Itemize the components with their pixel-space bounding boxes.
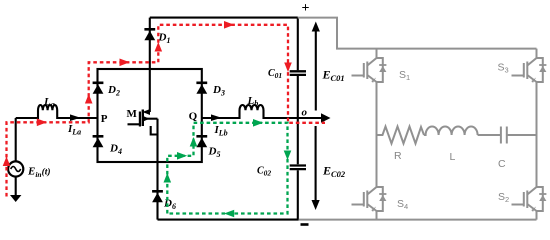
svg-text:P: P <box>101 113 108 125</box>
capacitor C01 <box>290 71 306 75</box>
gate bar <box>139 112 141 127</box>
wire: output line Q to o with inductor Lb <box>202 105 322 118</box>
gray bottom link wire <box>299 219 537 221</box>
diode bridge box <box>98 69 202 162</box>
wire: source top lead <box>15 118 17 162</box>
red arrow up beside D1 <box>155 42 163 52</box>
svg-text:R: R <box>394 150 402 162</box>
green arrow down at C02 <box>284 151 292 161</box>
red arrow down at C01 <box>284 63 292 73</box>
IGBT S4 <box>352 187 387 212</box>
diode D1 <box>144 29 155 40</box>
diode D2 <box>93 83 104 94</box>
diode D4 <box>93 136 104 147</box>
green current path (loop 2) <box>167 123 287 214</box>
MOSFET M <box>128 109 158 135</box>
wire: bottom rail <box>158 219 299 221</box>
gray left leg wire <box>376 49 378 220</box>
current arrow I_La <box>70 114 81 121</box>
wire: input line from source to node P with inductor La <box>16 105 98 118</box>
voltage arrow E_C01 <box>312 22 320 111</box>
green arrow right on Q-o run <box>253 119 263 127</box>
IGBT S1 <box>352 58 387 83</box>
AC source E_in(t) <box>8 161 23 176</box>
svg-text:Q: Q <box>189 111 198 123</box>
load capacitor C <box>478 127 537 144</box>
diode D6 <box>152 191 163 202</box>
red arrow up beside D2 <box>85 94 93 104</box>
ground (down arrow) <box>10 195 21 202</box>
red arrow up at source <box>3 157 11 167</box>
wire: D1 branch from top rail down to MOSFET drain <box>149 18 151 112</box>
svg-text:L: L <box>450 151 456 163</box>
red arrow right on top run <box>224 21 234 29</box>
minus terminal <box>301 223 309 226</box>
gate lead stub <box>128 123 140 125</box>
channel bar <box>142 110 144 127</box>
green arrow right below box <box>177 152 187 160</box>
green arrow left on bottom run <box>224 210 234 218</box>
gray right leg wire <box>536 49 538 220</box>
red arrow right on La line <box>37 119 47 127</box>
diode D5 <box>196 136 207 147</box>
current arrow I_Lb <box>211 114 222 121</box>
output terminal arrowhead <box>321 113 331 123</box>
svg-text:o: o <box>302 107 308 119</box>
svg-text:+: + <box>302 1 310 16</box>
svg-text:M: M <box>127 108 138 120</box>
wire: MOSFET source down through D6 to bottom rail <box>156 135 158 220</box>
red arrow right above box <box>120 59 130 67</box>
wire: source bottom lead <box>15 177 17 196</box>
body lead with right arrow <box>143 116 150 122</box>
voltage arrow E_C02 <box>312 126 320 210</box>
diode D3 <box>196 83 207 94</box>
resistor R <box>377 127 425 144</box>
capacitor C02 <box>290 166 306 170</box>
red current path (loop 1) <box>7 25 326 197</box>
wire: top rail <box>150 17 298 19</box>
wire: right rail with capacitor gaps <box>297 18 299 220</box>
IGBT S3 <box>512 58 547 83</box>
drain jog with arrow <box>145 111 150 113</box>
gray top link wire <box>298 18 537 49</box>
green arrow up beside D5 <box>190 137 198 147</box>
load inductor L <box>424 127 478 136</box>
source hook <box>151 126 158 135</box>
svg-text:C: C <box>498 158 506 170</box>
IGBT S2 <box>512 187 547 212</box>
green arrow up beside D6 <box>164 173 172 183</box>
